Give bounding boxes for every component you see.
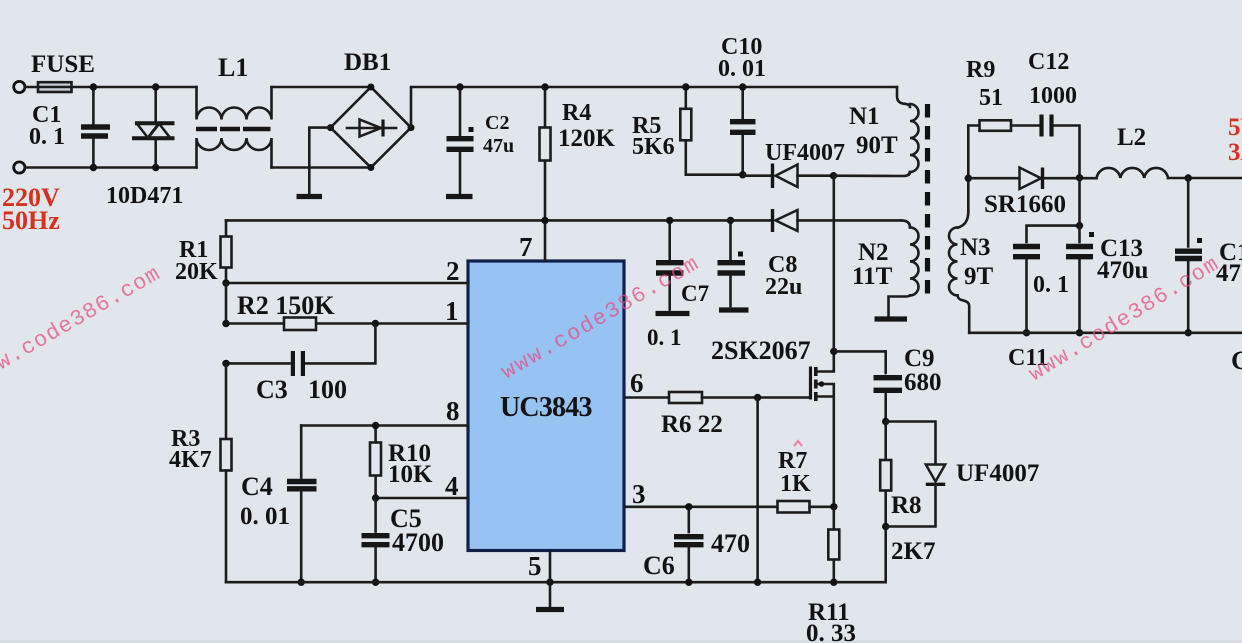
svg-text:SR1660: SR1660 bbox=[984, 191, 1066, 218]
resistor R6 22 bbox=[661, 392, 810, 438]
svg-text:90T: 90T bbox=[856, 132, 898, 159]
capacitor C9 680 bbox=[874, 345, 942, 425]
svg-text:2: 2 bbox=[446, 256, 460, 286]
svg-text:DB1: DB1 bbox=[344, 49, 391, 76]
capacitor C13 470u bbox=[1066, 177, 1149, 336]
wire: output ground rail bbox=[969, 331, 1242, 334]
svg-text:7: 7 bbox=[519, 232, 533, 262]
resistor R11 0.33 bbox=[806, 507, 856, 643]
capacitor C11 0.1 bbox=[1008, 222, 1083, 371]
svg-text:0. 01: 0. 01 bbox=[240, 503, 290, 530]
node: drain bbox=[830, 176, 886, 355]
capacitor C3 100 bbox=[222, 324, 375, 405]
label: 220V 50Hz input bbox=[2, 183, 60, 235]
terminal: AC neutral input bbox=[14, 162, 25, 173]
svg-text:R8: R8 bbox=[891, 492, 922, 519]
bridge rectifier DB1 bbox=[327, 49, 415, 171]
ground: bridge negative bbox=[297, 128, 331, 197]
watermark left bbox=[0, 261, 165, 390]
svg-text:C7: C7 bbox=[681, 281, 709, 306]
node: gate junction bbox=[754, 394, 761, 401]
capacitor C4 0.01 bbox=[240, 426, 317, 586]
svg-text:R4: R4 bbox=[562, 100, 591, 126]
svg-text:G: G bbox=[1231, 346, 1242, 375]
svg-text:9T: 9T bbox=[964, 263, 994, 290]
svg-text:680: 680 bbox=[904, 369, 942, 396]
svg-text:N2: N2 bbox=[858, 239, 889, 266]
svg-text:5V: 5V bbox=[1228, 114, 1242, 141]
resistor R1 20K bbox=[175, 220, 232, 285]
capacitor C1 0.1 bbox=[29, 87, 110, 168]
capacitor C6 470 bbox=[643, 503, 750, 586]
svg-text:1000: 1000 bbox=[1029, 83, 1077, 109]
svg-text:0. 1: 0. 1 bbox=[29, 124, 65, 150]
pin 8 bbox=[301, 396, 468, 426]
pin 5 bbox=[528, 551, 550, 583]
node: fuse/C1 junction bbox=[90, 83, 97, 171]
svg-text:C2: C2 bbox=[485, 112, 509, 134]
svg-text:0. 33: 0. 33 bbox=[806, 620, 856, 643]
svg-text:50Hz: 50Hz bbox=[2, 206, 60, 235]
svg-text:L1: L1 bbox=[218, 53, 248, 82]
svg-text:UC3843: UC3843 bbox=[500, 392, 592, 423]
svg-text:1: 1 bbox=[445, 296, 459, 326]
terminal: AC live input bbox=[14, 81, 25, 92]
svg-text:0. 1: 0. 1 bbox=[1033, 272, 1069, 298]
svg-text:R6 22: R6 22 bbox=[661, 411, 723, 438]
node: R2/C3 right junction bbox=[372, 320, 379, 327]
wire: N3 top to R9/SR1660 node bbox=[965, 126, 972, 212]
svg-text:1K: 1K bbox=[780, 471, 811, 497]
svg-text:FUSE: FUSE bbox=[31, 51, 95, 78]
svg-text:0. 01: 0. 01 bbox=[718, 56, 766, 82]
capacitor C12 1000 bbox=[1028, 49, 1080, 177]
watermark fragment bbox=[794, 441, 802, 446]
capacitor C5 4700 bbox=[362, 498, 445, 586]
resistor R3 4K7 bbox=[169, 426, 232, 582]
svg-text:5K6: 5K6 bbox=[632, 134, 675, 160]
svg-text:UF4007: UF4007 bbox=[956, 460, 1039, 487]
svg-text:6: 6 bbox=[630, 368, 644, 398]
diode SR1660 bbox=[968, 168, 1096, 219]
svg-text:4700: 4700 bbox=[392, 528, 444, 557]
svg-text:L2: L2 bbox=[1117, 124, 1146, 151]
wire: bottom ground rail bbox=[226, 581, 886, 584]
inductor L1 common-mode choke bbox=[196, 53, 272, 168]
wire: neutral input to L1 bbox=[26, 166, 197, 169]
capacitor C10 0.01 bbox=[718, 34, 766, 178]
svg-text:470u: 470u bbox=[1097, 257, 1149, 284]
pin 4 bbox=[376, 471, 468, 501]
watermark right bbox=[1025, 252, 1224, 387]
wire: gate node to ground rail bbox=[754, 398, 761, 586]
capacitor C8 22u bbox=[718, 217, 803, 306]
fuse FUSE bbox=[31, 51, 95, 92]
label: G (GND, clipped) bbox=[1231, 346, 1242, 375]
transformer winding N3 9T bbox=[949, 212, 994, 333]
svg-text:N3: N3 bbox=[960, 234, 991, 261]
pin 7 bbox=[519, 217, 549, 262]
ground: C7 bbox=[656, 311, 690, 316]
watermark middle bbox=[497, 251, 703, 385]
svg-text:2SK2067: 2SK2067 bbox=[711, 336, 811, 365]
resistor R2 150K bbox=[237, 291, 335, 330]
svg-text:10D471: 10D471 bbox=[106, 183, 183, 209]
svg-text:C12: C12 bbox=[1028, 49, 1069, 75]
capacitor C2 47u bbox=[446, 87, 514, 197]
svg-text:R9: R9 bbox=[966, 57, 995, 83]
op-amp U1 UC3843 bbox=[468, 261, 624, 551]
resistor R5 5K6 bbox=[632, 83, 743, 174]
svg-text:C3: C3 bbox=[256, 375, 288, 404]
svg-text:20K: 20K bbox=[175, 259, 218, 285]
pin 2 bbox=[226, 256, 468, 286]
node: drain/N1 junction bbox=[830, 172, 837, 179]
svg-text:0. 1: 0. 1 bbox=[647, 325, 682, 350]
wire: R1 to pin1 node bbox=[222, 283, 229, 327]
transformer winding N2 11T bbox=[852, 220, 919, 316]
ground: N2 bbox=[875, 316, 908, 321]
wire: R8 bottom to ground rail bbox=[884, 527, 887, 583]
svg-text:22u: 22u bbox=[765, 274, 802, 300]
svg-text:5: 5 bbox=[528, 551, 542, 581]
label: output voltage (clipped) bbox=[1228, 114, 1242, 166]
ground: pin5 bbox=[536, 579, 564, 610]
svg-text:C9: C9 bbox=[904, 345, 935, 372]
svg-text:11T: 11T bbox=[852, 263, 893, 290]
node: pin2/R1 bbox=[222, 279, 229, 286]
svg-text:C4: C4 bbox=[241, 472, 273, 501]
transistor Q1 2SK2067 bbox=[711, 336, 834, 507]
svg-text:4: 4 bbox=[445, 471, 459, 501]
transformer core bbox=[925, 104, 930, 298]
pin 1 bbox=[226, 296, 468, 326]
wire: left column to R3 bbox=[225, 363, 228, 439]
wire: VCC rail bbox=[226, 219, 771, 222]
svg-text:2K7: 2K7 bbox=[891, 538, 935, 565]
svg-text:470: 470 bbox=[711, 529, 750, 558]
wire: L1 to bridge bbox=[272, 87, 371, 168]
svg-text:N1: N1 bbox=[849, 103, 880, 130]
capacitor C7 0.1 bbox=[647, 217, 709, 350]
svg-text:51: 51 bbox=[979, 85, 1003, 111]
svg-text:47u: 47u bbox=[483, 135, 514, 157]
svg-text:3A: 3A bbox=[1228, 139, 1242, 166]
diode D1 UF4007 snubber bbox=[743, 140, 845, 188]
wire: DC+ rail (top) bbox=[411, 87, 897, 128]
svg-text:10K: 10K bbox=[388, 461, 433, 488]
pin 3 bbox=[624, 479, 777, 509]
transformer winding N1 90T bbox=[834, 87, 919, 176]
svg-text:120K: 120K bbox=[558, 125, 616, 152]
wire: live input to C1 node bbox=[26, 86, 197, 89]
resistor R8 2K7 bbox=[880, 422, 935, 566]
svg-text:R2 150K: R2 150K bbox=[237, 291, 335, 320]
svg-text:8: 8 bbox=[446, 396, 460, 426]
svg-text:UF4007: UF4007 bbox=[765, 140, 845, 166]
pin 6 bbox=[624, 368, 669, 398]
ground: C8 bbox=[719, 307, 749, 312]
node: varistor junctions bbox=[152, 83, 159, 171]
resistor R7 1K bbox=[778, 448, 838, 513]
inductor L2 bbox=[1097, 124, 1242, 182]
diode D3 UF4007 bbox=[886, 422, 1040, 527]
resistor R9 51 bbox=[966, 57, 1039, 131]
varistor 10D471 bbox=[106, 87, 183, 209]
capacitor C14 470u (output, clipped) bbox=[1175, 178, 1242, 336]
svg-text:4K7: 4K7 bbox=[169, 447, 212, 473]
svg-text:100: 100 bbox=[308, 375, 347, 404]
ground: C2 bbox=[456, 83, 463, 90]
resistor R4 120K bbox=[540, 83, 616, 220]
resistor R10 10K bbox=[370, 422, 433, 502]
svg-text:C6: C6 bbox=[643, 551, 675, 580]
svg-text:3: 3 bbox=[632, 479, 646, 509]
diode D2 UF4007 aux rectifier bbox=[773, 209, 902, 232]
